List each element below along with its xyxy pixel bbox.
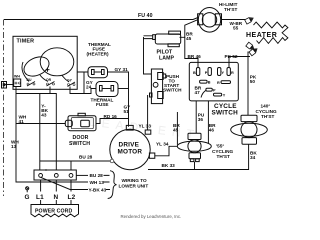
connector PK52 <box>249 47 258 56</box>
thermal fuse lower <box>96 82 118 97</box>
cycle switch mid contact B <box>200 80 208 83</box>
cycle switch terminal 4 <box>227 68 230 76</box>
svg-text:L1: L1 <box>36 194 44 201</box>
wire BR45 lamp right to hi-limit <box>180 20 198 38</box>
wire 140 thermostat to BK rail <box>148 144 249 169</box>
cycle switch contact P with curve <box>201 90 206 97</box>
svg-text:'55°: '55° <box>216 144 224 149</box>
svg-text:45: 45 <box>186 36 192 41</box>
svg-text:N: N <box>54 194 59 201</box>
wire hi-limit to heater connector <box>222 19 246 21</box>
svg-text:43: 43 <box>41 113 47 118</box>
svg-text:B: B <box>193 71 196 75</box>
wire fuse1 left stub <box>77 72 88 94</box>
svg-text:LOWER UNIT: LOWER UNIT <box>119 183 149 188</box>
svg-text:WH 13: WH 13 <box>90 180 105 185</box>
svg-text:SWITCH: SWITCH <box>212 110 239 117</box>
svg-text:41: 41 <box>19 119 25 124</box>
timer contact 1 <box>14 75 21 87</box>
svg-text:R: R <box>217 81 220 85</box>
wire N timer down <box>50 87 56 171</box>
terminal block <box>34 169 76 180</box>
drive motor <box>110 125 155 169</box>
svg-text:G: G <box>25 194 30 201</box>
cabinet border (dash-dot left) <box>3 20 5 197</box>
svg-text:HEATER: HEATER <box>246 32 277 39</box>
cycle switch terminal 1 <box>196 68 199 76</box>
svg-text:BU 28: BU 28 <box>90 173 104 178</box>
wire door switch left <box>16 123 65 125</box>
pilot lamp <box>153 31 181 47</box>
heater <box>254 22 288 43</box>
svg-text:47: 47 <box>195 90 201 95</box>
wire 155 thermostat to BK rail <box>194 162 196 170</box>
svg-text:TH'ST: TH'ST <box>261 114 274 119</box>
svg-text:B: B <box>208 81 211 85</box>
svg-text:GY: GY <box>67 79 73 83</box>
thermal fuse heater box <box>88 67 108 78</box>
svg-text:140°: 140° <box>261 104 271 109</box>
svg-text:TH'ST: TH'ST <box>217 154 230 159</box>
svg-text:SWITCH: SWITCH <box>69 141 90 147</box>
svg-text:LAMP: LAMP <box>159 56 175 62</box>
svg-text:(HEATER): (HEATER) <box>87 51 109 56</box>
svg-text:55: 55 <box>233 25 239 30</box>
svg-text:GY 31: GY 31 <box>115 67 129 72</box>
svg-text:YL 33: YL 33 <box>139 124 152 129</box>
svg-text:BK 33: BK 33 <box>162 163 176 168</box>
svg-text:YL 34: YL 34 <box>156 141 169 146</box>
timer stub to cabinet <box>4 84 14 86</box>
svg-text:L2: L2 <box>68 194 76 201</box>
svg-text:TH'ST: TH'ST <box>224 7 237 12</box>
wire BR46 down to cycle switch <box>185 37 198 68</box>
timer cam pivot <box>46 68 50 72</box>
svg-text:45: 45 <box>173 128 179 133</box>
wire L2 up to BU28 wire <box>70 161 72 170</box>
svg-text:FU 40: FU 40 <box>138 13 153 19</box>
svg-text:R: R <box>231 71 234 75</box>
door switch <box>65 113 96 130</box>
wire fuse2 left stub <box>84 89 96 94</box>
svg-text:Y-BK 43: Y-BK 43 <box>89 188 107 193</box>
row stubs to brace <box>104 175 111 189</box>
wire L1 lead down <box>40 180 42 205</box>
wire motor left lead <box>40 160 110 162</box>
timer contact 4 <box>67 79 75 87</box>
wire WH13 timer contact1 down <box>16 87 88 183</box>
wire BU28 row <box>76 174 88 176</box>
wire PU36 <box>195 101 197 133</box>
hi-limit thermostat <box>198 7 222 32</box>
svg-text:50: 50 <box>250 79 256 84</box>
svg-text:Y: Y <box>223 94 226 98</box>
connector upper <box>245 16 255 24</box>
timer internal cam wires <box>22 62 29 82</box>
push to start switch <box>150 69 166 104</box>
cycle switch terminal 2 <box>208 68 211 76</box>
wire N lead down <box>55 180 57 205</box>
ground symbol <box>26 187 29 193</box>
power cord box <box>31 205 79 217</box>
wire y93 tick <box>16 93 50 95</box>
watermark <box>88 115 200 142</box>
cycle switch contact Y <box>214 93 222 96</box>
cycle switch box <box>189 62 238 101</box>
svg-text:DRIVE: DRIVE <box>119 142 140 149</box>
cycle switch terminal 3 <box>218 68 221 76</box>
connector lower <box>246 42 255 51</box>
svg-text:13: 13 <box>11 144 17 149</box>
label Y-BK 43 vertical <box>41 103 50 118</box>
wire YL 34 <box>155 146 178 156</box>
svg-text:SWITCH: SWITCH <box>163 88 182 93</box>
svg-text:BU 28: BU 28 <box>79 154 93 159</box>
wire BR46 lower <box>207 101 209 144</box>
155 cycling thermostat <box>177 133 211 161</box>
svg-text:34: 34 <box>250 155 256 160</box>
wire L1 diagonal to Y-BK43 row <box>41 177 88 189</box>
wire top rail FU 40 <box>4 18 198 20</box>
wire PK52 to connector <box>229 57 250 69</box>
svg-text:46: 46 <box>209 128 215 133</box>
svg-text:FUSE: FUSE <box>96 102 109 107</box>
wire YL33 switch bottom to motor <box>147 95 149 130</box>
wire lamp left down to start switch <box>144 36 153 74</box>
brace wiring to lower unit <box>108 171 117 199</box>
wire L2 lead down <box>70 180 72 205</box>
wire contact4 drop <box>70 87 84 94</box>
wire PK50 heater down to 140 thermostat <box>247 52 249 116</box>
wire RD 16 <box>96 119 129 124</box>
timer cam <box>40 48 74 76</box>
timer contact 3 <box>46 78 55 86</box>
svg-text:WH: WH <box>14 75 20 79</box>
svg-text:MOTOR: MOTOR <box>118 149 143 156</box>
wire BR45 lower <box>176 112 178 145</box>
svg-text:51: 51 <box>124 109 130 114</box>
140 cycling thermostat <box>231 115 268 144</box>
wire Y-BK43 timer down to L1 <box>39 94 41 171</box>
svg-text:POWER CORD: POWER CORD <box>35 209 72 215</box>
wire fuse2 right to GY31 wire <box>118 88 129 90</box>
svg-text:BR 46: BR 46 <box>188 54 202 59</box>
timer box <box>13 36 77 89</box>
svg-text:Rendered by LeadVenture, Inc.: Rendered by LeadVenture, Inc. <box>121 214 182 219</box>
wire GY 31 <box>108 72 129 127</box>
timer contact 2 <box>27 78 36 86</box>
svg-text:WIRING TO: WIRING TO <box>122 178 148 183</box>
svg-text:TIMER: TIMER <box>17 39 35 45</box>
svg-text:36: 36 <box>198 117 204 122</box>
cycle switch mid contact R <box>221 81 231 84</box>
